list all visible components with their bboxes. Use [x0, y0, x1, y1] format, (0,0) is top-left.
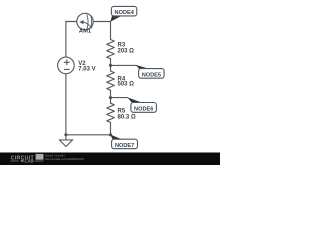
junction node5	[109, 64, 112, 67]
resistor R3	[107, 40, 115, 59]
wire R5 bottom to corner	[110, 122, 112, 134]
wire ground stub	[65, 135, 67, 140]
wire node5 branch	[111, 64, 137, 66]
junction node6	[109, 96, 112, 99]
junction node7 corner	[109, 133, 112, 136]
flag NODE5	[136, 65, 164, 78]
svg-text:NODE7: NODE7	[115, 143, 134, 149]
junction ground	[64, 133, 67, 136]
wire V2 bottom to ground rail	[65, 74, 67, 135]
svg-text:AM1: AM1	[79, 28, 92, 34]
logo LAB row	[11, 160, 19, 162]
wire ammeter right to corner	[93, 21, 110, 23]
wire R4 bottom to node6 junction	[110, 90, 112, 97]
wire left column vertical	[65, 22, 67, 58]
wire bottom horizontal	[66, 134, 111, 136]
svg-text:503 Ω: 503 Ω	[118, 82, 135, 88]
voltage source V2	[58, 57, 75, 74]
resistor R5	[107, 103, 115, 122]
wire node6 branch	[111, 97, 128, 99]
wire node6 junction to R5 top	[110, 98, 112, 104]
resistor R4	[107, 71, 115, 90]
flag NODE7	[110, 135, 137, 149]
wire R3 bottom to node5 junction	[110, 59, 112, 66]
wire node5 junction to R4 top	[110, 65, 112, 71]
ammeter AM1	[77, 13, 93, 29]
svg-text:NODE6: NODE6	[134, 106, 153, 112]
svg-text:htto://circuitlab.com/c/cdda8f: htto://circuitlab.com/c/cdda8f5bv9d43	[45, 157, 84, 161]
wire top-left horizontal	[66, 21, 77, 23]
flag NODE4	[110, 6, 137, 21]
wire right column to R3 top	[110, 22, 112, 40]
ground	[59, 140, 72, 147]
svg-text:NODE5: NODE5	[142, 72, 161, 78]
svg-text:203 Ω: 203 Ω	[118, 49, 135, 55]
svg-text:LAB: LAB	[25, 159, 34, 164]
flag NODE6	[127, 97, 156, 112]
watermark bar	[0, 153, 220, 166]
svg-text:NODE4: NODE4	[115, 10, 135, 16]
svg-text:7.03 V: 7.03 V	[78, 67, 95, 73]
svg-text:80.3 Ω: 80.3 Ω	[118, 115, 136, 121]
